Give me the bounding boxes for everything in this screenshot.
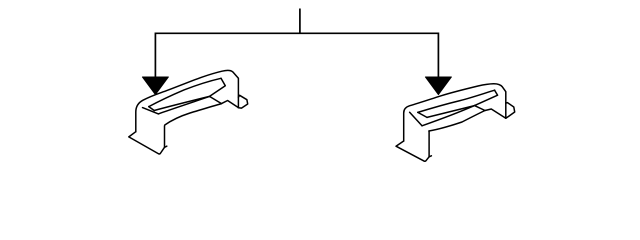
left part: inset right steep edge [210,78,226,96]
left part: left end crease [143,108,159,114]
right part: inset top edge [418,90,495,112]
right part: top face front edge [422,106,475,126]
arrowhead left [142,77,168,95]
right part: foot tick [429,156,431,157]
arrowhead right [425,77,451,95]
left part: right foot zigzag [210,96,239,107]
left part: front wall bottom edge [165,104,222,125]
left part: top face front edge [158,96,209,114]
right part: inset left short edge [418,112,427,117]
right part: outer outline [404,84,506,141]
right part: right tab [506,103,515,119]
right part: inset right steep edge [475,90,498,105]
wire: callout bracket [155,9,438,80]
left part: inset bottom edge [154,96,209,110]
left part: inset top edge [149,78,221,106]
left part: left foot flange [129,126,165,154]
left part: inset left short edge [149,107,154,111]
left part: outer outline [136,70,239,131]
right part: left foot flange [396,131,429,161]
left part: foot tick [165,146,167,147]
right part: left end crease [410,112,422,126]
right part: right foot zigzag [475,106,506,119]
right part: inset bottom edge [427,106,475,118]
left part: right tab [238,95,247,108]
right part: front wall bottom edge [429,111,485,132]
